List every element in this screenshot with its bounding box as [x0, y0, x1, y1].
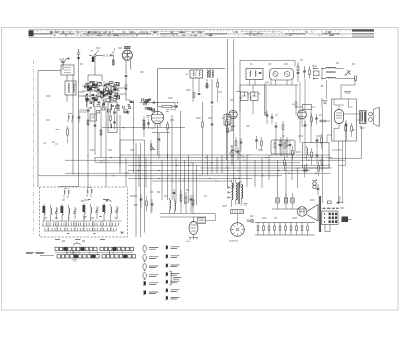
wave trap capacitor [78, 117, 81, 118]
mixer secondary parts row [87, 101, 134, 113]
bottom bus under AF column [160, 214, 215, 218]
pick-up switch S1 [94, 54, 96, 56]
AF driver tube V6 top view [298, 110, 307, 119]
label 49 [247, 220, 251, 222]
legend text left column row 1 [149, 248, 159, 250]
output stage box [332, 99, 357, 141]
oscillator coil L3 [93, 100, 94, 107]
ground band switch [120, 232, 124, 234]
grid stopper box R19 [198, 218, 206, 224]
rectifier socket bottom view [231, 223, 245, 237]
oscillator coil L2 [86, 100, 87, 107]
wire EM4 chain down [125, 77, 127, 100]
parts pair left of tone box [255, 140, 258, 141]
aerial terminal A1 [60, 57, 71, 70]
mid loom verticals right [197, 155, 223, 205]
label marks AF [134, 192, 160, 205]
tuning dial scale baseline middle [29, 33, 374, 35]
resistor R11 small box [314, 71, 320, 76]
legend tube symbol left column row 3 [143, 264, 146, 270]
tuning indicator tube EM4 top view [122, 50, 132, 60]
V6 grid parts [311, 117, 313, 122]
capacitor C22 [190, 199, 193, 200]
wire socket to transformer [237, 214, 239, 223]
wire switch to AF [350, 72, 356, 79]
legend text right column row 4 [171, 274, 180, 276]
wires inside output box [334, 99, 353, 141]
legend text left column row 5 [149, 283, 159, 285]
capacitor C7 [211, 102, 214, 103]
negative feedback network box [303, 143, 330, 169]
tuning dial scale baseline upper [29, 29, 374, 31]
label A [323, 101, 328, 104]
loudspeaker LS1 [369, 112, 373, 116]
T6 core [238, 182, 239, 204]
coupling caps pair mid [266, 115, 269, 116]
bleeder resistor RB5 [279, 226, 281, 231]
wafer switch contact table row 2 group 2 [102, 255, 136, 258]
bleeder resistor RB9 [301, 226, 303, 231]
dial scale band segment lines [55, 32, 290, 36]
legend text right column row 6 [171, 290, 180, 292]
decoupling capacitor C5 [94, 125, 97, 126]
resistor R10 right [226, 121, 228, 126]
electrolytic capacitor C25 [291, 198, 294, 203]
oscillator padder coil T2 [207, 70, 208, 77]
bleeder resistor RB4 [274, 226, 276, 231]
small parts under R6 [166, 110, 174, 112]
part 65 [345, 126, 347, 131]
legend symbol right column row 6 [166, 288, 168, 292]
output transformer T5 [360, 111, 367, 124]
tuning dial scale baseline lower [29, 37, 374, 39]
legend text left column row 3 [149, 266, 159, 268]
svg-text:gr: gr [91, 49, 93, 52]
small trimmer box left [90, 114, 97, 121]
mains transformer T6 secondary winding [236, 183, 237, 200]
legend text right column row 7 [171, 297, 180, 299]
AVC resistor R3 [87, 120, 89, 125]
dial scale tick marks [35, 30, 349, 36]
AF choke L14 [170, 200, 171, 210]
screen resistor R7 [143, 124, 145, 129]
volume box drop wires [136, 167, 145, 238]
feedback resistor R15 [321, 160, 323, 165]
wires right top area [300, 79, 327, 203]
tone switch S3 [346, 70, 351, 75]
coupling capacitor C21 [173, 193, 176, 194]
small part 62 [227, 128, 229, 133]
label above EM4 [124, 47, 131, 48]
wire feedback box to output [327, 135, 342, 150]
wire label to table [40, 255, 54, 257]
legend text left column row 2 [149, 257, 159, 259]
wire mixer left horizontals [79, 110, 90, 112]
gramophone input transformer L4 lower winding [326, 77, 336, 78]
capacitor C2 under EM4 [125, 76, 128, 77]
wafer table tick marks [66, 251, 122, 255]
trimmer C17 [55, 207, 58, 219]
dial scale bold segments middle line [29, 33, 340, 35]
wire IF bus top [158, 69, 226, 115]
aerial coupling coil L1 box [65, 81, 76, 95]
detector diode D2 box [251, 92, 259, 101]
wire L4 left terminals [322, 69, 326, 79]
wire horizontal y103 [140, 103, 175, 111]
grid leak R4 [100, 130, 102, 135]
terminal strip top parts row [323, 207, 339, 209]
padding coil pair 42 [87, 189, 88, 193]
bleeder resistor RB10 [307, 226, 309, 231]
T6 left terminal ticks [227, 186, 229, 199]
potentiometer P2 with arrow [231, 150, 233, 156]
parts below tone box [292, 151, 294, 156]
pick-up terminals [315, 69, 319, 79]
AVC cluster lower parts [143, 121, 145, 126]
legend tube symbol left column row 6 [144, 290, 146, 295]
cathode resistor R13 [351, 126, 353, 131]
band switch label blobs [45, 200, 118, 234]
capacitor C10 small [158, 139, 161, 140]
wafer switch contact table row 1 group 1 [55, 247, 97, 250]
svg-text:M: M [321, 85, 323, 88]
bleeder resistor RB2 [263, 226, 265, 231]
bleeder resistor RB6 [285, 226, 287, 231]
wave trap coil pair [68, 115, 69, 119]
wires second IF top [228, 39, 241, 123]
tone network box [271, 140, 295, 154]
trimmer capacitor C6 [198, 94, 201, 95]
padding coil pair 41 [64, 190, 65, 194]
band switch dark blobs [43, 206, 45, 213]
part on wire x355 [355, 76, 357, 81]
mains transformer T6 tertiary winding [241, 185, 242, 199]
oscillator mixer section dense cluster [85, 81, 120, 101]
legend tube symbol left column row 1 [143, 245, 146, 251]
tube V4 base pins [189, 238, 198, 240]
IF transformer T3 can [246, 69, 263, 80]
wires output box down [339, 123, 347, 203]
antenna trimmer C1 [77, 49, 80, 61]
grid resistor R6 [162, 105, 172, 107]
feedback capacitor C14 [316, 155, 319, 156]
mixer tube V1 ECH4 cluster wires [88, 65, 102, 81]
padder capacitor C3 [98, 102, 101, 103]
electrolytic capacitor C24 [284, 198, 287, 203]
left tick marks [43, 130, 59, 145]
detector diode D1 box [241, 92, 249, 101]
wiring loom horizontal bus lines [38, 155, 345, 181]
loom vertical wires center [120, 101, 146, 188]
wave band coil L11 [91, 207, 92, 214]
parts cluster far left mid [235, 141, 237, 146]
oscillator coil stack parts [111, 104, 112, 110]
wire detector bus y91 [236, 91, 240, 93]
capacitor C11 pair [303, 71, 306, 72]
svg-text:⊕ ⊖: ⊕ ⊖ [186, 240, 190, 243]
screen bypass box [224, 115, 231, 126]
mains transformer T6 primary winding [232, 183, 233, 200]
resistor R5 below T2 [206, 84, 208, 89]
wire detector double vertical [265, 82, 270, 116]
wave band coil L10 [84, 205, 85, 214]
dial scale frequency number blobs [49, 31, 334, 36]
IF amplifier tube V2 EBF2 [151, 111, 163, 123]
part 60 [304, 125, 307, 126]
wave band coil L8 [62, 206, 63, 215]
wire left bus from L1 [38, 71, 61, 187]
terminal strip contact squares [324, 213, 337, 223]
AF output tube V4 side view [189, 222, 198, 235]
band labels below box [55, 240, 105, 242]
cluster capacitor pair 64 [316, 140, 319, 141]
band switch contact ticks [43, 223, 119, 231]
wire EM4 line joins [126, 100, 130, 103]
legend text right column row 2 [171, 256, 180, 258]
label below bracket [72, 260, 77, 262]
dial scale left end block [29, 30, 34, 36]
legend bracket [170, 271, 172, 285]
wire tube anode to T5 [344, 114, 360, 120]
trimmer C20 [116, 206, 119, 219]
cathode resistor R8 [167, 124, 169, 129]
oscillator section can outline [108, 102, 117, 133]
bleeder resistor RB8 [296, 226, 298, 231]
tone network internals [274, 143, 276, 148]
legend tube symbol left column row 5 [144, 281, 146, 286]
legend symbol right column row 2 [166, 254, 168, 258]
AF amplifier tube V5 top view [229, 110, 237, 118]
wafer table bracket marker [74, 242, 80, 246]
volume control box outline [120, 140, 145, 167]
diagonal wire mid [234, 150, 245, 158]
decoupling capacitor C9 [211, 124, 214, 125]
wire aerial to L1 [63, 64, 73, 175]
left resistor R20 [67, 129, 69, 135]
wafer table connecting line [55, 252, 133, 254]
mains terminal strip outline [322, 211, 338, 225]
wave band coil L6 [44, 206, 45, 215]
speaker return wire [329, 126, 362, 158]
rectifier tube magnet circle [297, 207, 307, 217]
feedback coil L5 [307, 148, 308, 155]
resistor R18 on vertical 193 [192, 200, 194, 205]
capacitor C16 [237, 151, 240, 152]
legend bracket text [173, 278, 181, 280]
loom verticals right section [228, 90, 298, 199]
pilot lamp E1 [251, 219, 254, 222]
trimmer C4 [103, 100, 106, 106]
wave band coil L7 [51, 208, 52, 215]
legend tube symbol left column row 2 [143, 255, 146, 261]
loom verticals from V2 area [158, 111, 194, 208]
feedback resistor R14 [311, 152, 313, 157]
grid capacitor C13 [345, 125, 348, 126]
wires detector legs [240, 85, 253, 115]
T6 terminal wires [228, 180, 241, 207]
wire T3 T4 legs [250, 80, 293, 86]
part on oscillator leg [217, 83, 219, 88]
wire mains leads [325, 225, 330, 232]
ground in feedback box [305, 170, 309, 172]
tone capacitor C15 [317, 189, 320, 190]
legend tube symbol left column row 4 [143, 273, 146, 279]
volume potentiometer P1 [151, 146, 156, 150]
label S.G. [244, 204, 248, 206]
legend symbol right column row 1 [166, 245, 168, 249]
wave band coil L12 [104, 205, 105, 214]
label Wellenschalter [26, 252, 45, 253]
dial scale right end label block MARSTRAND [352, 29, 374, 31]
svg-text:Ø-Ø-Ø+Ø: Ø-Ø-Ø+Ø [229, 241, 238, 243]
detector components cluster [297, 66, 299, 71]
trimmer C19 [96, 206, 99, 219]
pilot lamp transformer [313, 182, 316, 185]
wire T1 legs down [193, 78, 212, 102]
wires mixer down to loom [88, 106, 106, 160]
resistor R16 tall [180, 195, 182, 201]
chassis dash-dot line left [33, 60, 35, 235]
wire switch down [95, 56, 113, 66]
legend symbol right column row 7 [166, 296, 168, 300]
mixer interconnect wires [78, 88, 126, 103]
voltage selector plate [231, 210, 244, 214]
connector lug right of strip [342, 217, 349, 223]
V5 bias parts [231, 127, 233, 131]
bleeder resistor RB7 [290, 226, 292, 231]
resistor R5b on can leg [193, 93, 195, 98]
bleeder resistor RB1 [257, 226, 259, 231]
legend symbol right column row 5 [166, 280, 168, 284]
label V2 [146, 116, 151, 118]
legend text right column row 1 [171, 247, 180, 249]
band switch bottom bus [42, 221, 122, 231]
wave band coil L13 [111, 207, 112, 214]
core lines L4 [326, 72, 336, 73]
loom vertical drop wires left [59, 61, 107, 188]
gramophone input transformer L4 upper winding [326, 67, 336, 68]
wire L4 to switch [336, 69, 355, 86]
heater bus line [255, 222, 315, 224]
resistor R1a dark body [92, 57, 94, 63]
trimmer C18 [74, 207, 77, 219]
legend text left column row 6 [149, 292, 159, 294]
bleeder resistor RB3 [268, 226, 270, 231]
output pentode V3 EL3 [335, 110, 344, 124]
AVC filter cluster [141, 99, 155, 112]
resistor R1 on switch line [112, 60, 114, 65]
switch lever S2 [111, 48, 115, 55]
resistor R2 under EM4 [125, 85, 127, 89]
anode resistor R9 [202, 122, 204, 127]
V6 anode parts row [320, 120, 326, 122]
cluster resistors mid right 63 [280, 141, 282, 146]
field coil speaker LS2 cone [307, 205, 318, 222]
electrolytic capacitor C23 [276, 198, 279, 203]
parts above loom 61 [275, 126, 278, 127]
mixer through wires [82, 81, 120, 100]
AF choke L15 [175, 201, 176, 211]
dark chassis double line [319, 196, 320, 232]
wire IF bus y85 [240, 84, 298, 86]
wires to pilot lamp lines [298, 165, 339, 168]
sub-chassis bottom line [255, 234, 315, 236]
legend text left column row 4 [149, 275, 159, 277]
legend symbol right column row 4 [166, 272, 168, 276]
IF transformer T1 box [190, 70, 203, 78]
wire EM4 anode down [126, 60, 131, 74]
label EL3 above box [344, 92, 351, 94]
wave band coil L9 [69, 208, 70, 215]
mains switch S4 [213, 187, 231, 189]
wire oscillator feed y128 [102, 127, 185, 129]
loom junction dots [103, 154, 320, 181]
switch contact ticks [104, 54, 110, 57]
coupling parts left of AF column [140, 199, 143, 200]
legend symbol right column row 3 [166, 263, 168, 267]
wafer switch contact table row 2 group 1 [57, 255, 99, 258]
legend text right column row 3 [171, 265, 180, 267]
chassis line under electrolytics [272, 208, 306, 210]
wire grid line y132 [152, 132, 170, 134]
part above strip [327, 201, 331, 204]
band switch inner verticals [48, 221, 111, 231]
part top right of strip [337, 196, 344, 203]
IF transformer T4 rounded can with trimmers [270, 69, 294, 81]
legend text right column row 5 [171, 281, 180, 283]
aerial input box [61, 65, 74, 75]
resistor R17 [185, 197, 187, 203]
coupling capacitor C8 [176, 105, 177, 108]
wafer switch contact table row 1 group 2 [100, 247, 134, 250]
scattered component value labels [46, 48, 365, 218]
band switch compartment dashed box [40, 187, 128, 237]
capacitor C12 box [303, 105, 312, 110]
wire V4 connections [206, 214, 216, 221]
